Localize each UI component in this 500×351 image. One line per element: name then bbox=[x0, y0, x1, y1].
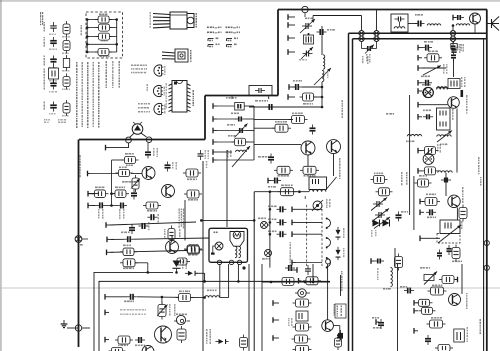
transistor V703 bbox=[449, 294, 461, 306]
air coil L702 text left bbox=[377, 268, 379, 270]
FM dipole symbol bbox=[130, 122, 147, 138]
oscillator transformer L611 bbox=[440, 220, 460, 234]
transistor V605 bbox=[448, 195, 460, 207]
wire motor down 2 bbox=[228, 264, 230, 298]
electrolytic C123 bbox=[174, 315, 190, 324]
terminal am261 bbox=[371, 258, 384, 264]
wire diode out bbox=[196, 273, 206, 282]
connector X3 bbox=[261, 222, 271, 229]
mixer wires bbox=[217, 106, 254, 160]
resistor R610 bbox=[371, 176, 388, 184]
resistor partial bottom bbox=[109, 348, 126, 351]
wire am mid vertical bbox=[409, 95, 411, 176]
TO-220 package leads bbox=[153, 14, 170, 28]
resistor R407m label bbox=[228, 135, 230, 137]
wire RF row97 bbox=[314, 96, 323, 99]
resistor R613 bbox=[422, 198, 440, 206]
wire vertical x262 bbox=[261, 264, 263, 351]
capacitor C408 label bbox=[153, 148, 155, 150]
trimmer capacitor C304 bbox=[364, 45, 374, 54]
tick mark on border 1 bbox=[231, 97, 233, 100]
TO-92 V201 pin marks bbox=[164, 66, 166, 68]
wire RF strip 2 bbox=[408, 23, 417, 25]
parts list text column 4 bbox=[93, 62, 95, 64]
af section text 2 bbox=[339, 158, 341, 160]
hf text right edge bbox=[478, 157, 480, 159]
coil L603 label bbox=[406, 141, 408, 143]
wire node stub 3 bbox=[452, 26, 454, 31]
wire switch feeds bbox=[296, 209, 322, 262]
capacitor C713 bbox=[293, 323, 312, 331]
wire af vertical x270 bbox=[269, 192, 271, 268]
wire bus y282 bbox=[262, 281, 330, 283]
boxed capacitor B401 bbox=[235, 103, 245, 111]
capacitor C712 box bbox=[296, 311, 308, 321]
TO-92 package V202 bbox=[153, 85, 162, 96]
resistor R403 bbox=[92, 190, 109, 198]
capacitor C122 bbox=[127, 294, 137, 300]
IF transformer F501 bbox=[309, 177, 327, 192]
capacitor C416 bbox=[135, 337, 145, 343]
resistor R409c label bbox=[147, 210, 149, 212]
resistor R722 bbox=[335, 335, 342, 350]
coil L303 bbox=[427, 24, 441, 26]
capacitor C403 bbox=[96, 202, 106, 208]
band text MV bbox=[341, 271, 343, 272]
node on box edge 3 bbox=[237, 260, 241, 264]
terminal row RF low bbox=[288, 84, 296, 100]
diode V404 bbox=[173, 261, 181, 274]
terminal row B bbox=[106, 222, 114, 255]
mixer right wire bbox=[244, 105, 254, 107]
capacitor C303b bbox=[292, 84, 302, 90]
parts list text column 1 bbox=[76, 62, 78, 64]
RF input terminal row bbox=[288, 14, 295, 55]
boxed capacitor C624 bbox=[459, 205, 467, 222]
variable resistor R605 bbox=[437, 131, 452, 143]
terminal rows bottom left bbox=[105, 294, 109, 342]
wire R441 link bbox=[200, 249, 203, 251]
node X2 bbox=[75, 325, 81, 331]
legend value A3 bbox=[49, 67, 51, 69]
electrolytic C123 label bbox=[176, 314, 178, 316]
border step vertical bbox=[204, 96, 206, 140]
junction dots demod bbox=[321, 106, 324, 109]
capacitor C520 bbox=[285, 265, 295, 271]
wire am v5 bbox=[461, 264, 463, 294]
wire x1115 vertical bbox=[111, 160, 113, 206]
resistor R408b bbox=[116, 170, 133, 177]
capacitor C601 bbox=[422, 45, 432, 51]
transistor V602 label bbox=[466, 95, 468, 98]
scan page corner bbox=[0, 0, 2, 2]
capacitor C530 bbox=[338, 330, 343, 340]
crossed node B1 bbox=[374, 31, 379, 36]
wire row A2 bbox=[92, 204, 117, 207]
shielded filter box F302 bbox=[391, 14, 408, 32]
border AM block top rail bbox=[353, 38, 488, 40]
resistor R709 bbox=[240, 335, 248, 351]
capacitor C410b on bus bbox=[124, 236, 134, 242]
transistor V301 bbox=[470, 13, 481, 25]
trimmer C406m bbox=[235, 124, 248, 138]
terminal row am4 bbox=[418, 148, 422, 154]
node right dipole bbox=[146, 137, 152, 143]
node left dipole bbox=[126, 137, 132, 143]
resistor R404 bbox=[112, 190, 129, 198]
terminal stubs mid bbox=[292, 207, 296, 266]
wire am v left low bbox=[394, 248, 396, 268]
legend symbol A2 bbox=[50, 37, 57, 47]
service box SR3 marks bbox=[101, 40, 102, 42]
crossed node C2 bbox=[450, 36, 455, 41]
capacitor C625 bbox=[447, 245, 452, 255]
capacitor C510 label bbox=[268, 186, 270, 188]
resistor R410 bbox=[184, 190, 202, 198]
capacitor C513 bbox=[277, 231, 287, 237]
legend caption text column bbox=[40, 12, 41, 15]
capacitor C715 bbox=[337, 332, 343, 342]
filter box F601 label bbox=[452, 109, 454, 111]
variable capacitor C301 bbox=[300, 19, 315, 33]
legend symbol B1 bbox=[63, 21, 70, 37]
oscillator coil L301 bbox=[323, 55, 325, 69]
mixer wire r4 bbox=[246, 141, 255, 143]
af text marks bbox=[288, 318, 290, 319]
wire am v emitter bbox=[456, 208, 458, 221]
border IF block left edge bbox=[78, 140, 80, 348]
ground symbol G1 bbox=[61, 320, 78, 328]
TO-92 package V203 bbox=[154, 103, 163, 114]
node right rail 2 bbox=[484, 265, 489, 270]
terminal row am5 bbox=[418, 168, 422, 174]
wire RF top link bbox=[313, 16, 362, 23]
terminal row am3 bbox=[418, 114, 422, 120]
legend label A5 bbox=[44, 80, 46, 82]
trimmer capacitor C304 label bbox=[366, 54, 368, 56]
resistor R502 bbox=[289, 116, 308, 124]
electrolytic C603 bbox=[451, 44, 457, 53]
wire diode link bbox=[173, 271, 187, 274]
type label box V923 bbox=[335, 304, 346, 318]
detector coil L501 bbox=[312, 200, 323, 211]
resistor R721 bbox=[435, 345, 453, 351]
wire V401 base bbox=[137, 159, 143, 161]
wire V502 down bbox=[333, 154, 335, 176]
terminal row A bbox=[88, 191, 95, 208]
filter box F601 bbox=[437, 108, 451, 130]
varicap label bbox=[371, 230, 373, 231]
wire node stub 2 bbox=[376, 10, 378, 31]
crossed node C1 bbox=[450, 31, 455, 36]
project text block bbox=[179, 209, 180, 211]
DIP-16 pin numbers bbox=[166, 83, 168, 86]
resistor R703 label bbox=[179, 291, 182, 293]
capacitor C303b label bbox=[293, 80, 295, 82]
capacitor C411 bbox=[139, 223, 149, 229]
service box plain row bbox=[86, 43, 118, 46]
diode V404 label bbox=[182, 258, 184, 260]
TO-92 V202 pin marks bbox=[164, 87, 166, 90]
legend symbol B2 bbox=[63, 38, 70, 54]
resistor R405 value bbox=[126, 165, 128, 167]
transistor V703 label bbox=[466, 293, 468, 294]
diode V504 bbox=[336, 247, 341, 260]
wire node stub 1 bbox=[361, 16, 363, 31]
TO-220 package label bbox=[196, 13, 198, 15]
pot R710 label bbox=[420, 267, 422, 269]
resistor R404 label bbox=[115, 187, 118, 189]
capacitor C510 bbox=[268, 178, 281, 184]
service box SR5 label bbox=[100, 56, 102, 58]
detector coil L501 label bbox=[326, 199, 328, 201]
ladder bottom capacitor bbox=[293, 346, 312, 351]
crossed node A1 bbox=[359, 31, 364, 36]
boxed capacitor C613 bbox=[422, 147, 439, 155]
scan page top edge band bbox=[0, 0, 500, 2]
capacitor C406 bbox=[165, 162, 171, 172]
connector X4 label bbox=[262, 258, 265, 260]
am r612 caption bbox=[386, 113, 388, 115]
switch contact K2 bbox=[326, 237, 331, 249]
junction dots y282 bbox=[270, 281, 315, 284]
varicap diode V611 bbox=[374, 217, 390, 229]
capacitor C404 bbox=[117, 203, 127, 209]
legend value B3 bbox=[62, 70, 65, 72]
junction dots y192 bbox=[269, 190, 301, 193]
terminal stubs afb bbox=[273, 300, 279, 341]
capacitor C601 label bbox=[424, 41, 427, 43]
am text right FM bbox=[480, 177, 482, 178]
TO-92 V203 pin marks bbox=[164, 105, 166, 107]
wire row297c bbox=[191, 296, 206, 299]
legend symbol A6 bbox=[50, 102, 57, 112]
wire V301 emitter bbox=[474, 24, 476, 33]
wire row A link bbox=[92, 192, 113, 195]
coil L606 bbox=[437, 88, 448, 90]
capacitor C408 in bbox=[145, 143, 151, 159]
wire IF bus 3 bbox=[111, 251, 188, 253]
service box right bus bbox=[116, 20, 118, 53]
am if text block bbox=[401, 172, 403, 174]
connector X1 bbox=[75, 236, 88, 243]
resistor R720 label bbox=[431, 317, 433, 319]
transistor V602 bbox=[448, 97, 460, 109]
transistor V702b partial bbox=[142, 346, 154, 351]
wire row297b bbox=[137, 296, 179, 299]
terminal am238 bbox=[420, 236, 440, 242]
dial motor winding bbox=[235, 246, 241, 257]
wire af bus bbox=[254, 191, 309, 193]
transistor V704 bbox=[322, 320, 334, 332]
border step at mixer bbox=[205, 95, 278, 97]
switch rod dashed bbox=[306, 205, 308, 268]
resistor R712 label bbox=[432, 285, 434, 287]
capacitor C122 label bbox=[124, 301, 126, 303]
corner wire 2 bbox=[99, 281, 330, 351]
capacitor C504 label bbox=[258, 156, 261, 158]
capacitor C512 bbox=[277, 219, 287, 225]
legend label A4 bbox=[44, 69, 46, 71]
capacitor C713b label bbox=[400, 286, 402, 288]
terminal rows AM in bbox=[418, 45, 422, 94]
wire am v0 bbox=[453, 59, 455, 77]
resistor R503 label bbox=[275, 121, 277, 123]
service box SR1 label bbox=[99, 14, 102, 16]
resistor R708 bbox=[177, 326, 186, 343]
boxed capacitor C715b bbox=[419, 307, 436, 314]
air coil L702 bbox=[391, 268, 393, 287]
wire IF bus 1 bbox=[110, 222, 196, 225]
boxed capacitor C714b bbox=[416, 299, 433, 306]
terminal to dipole bbox=[106, 143, 129, 150]
transistor V605 label bbox=[462, 187, 464, 189]
legend value A6 bbox=[49, 113, 50, 115]
dial motor box bbox=[209, 228, 248, 262]
terminal af right bbox=[455, 277, 458, 283]
legend value B2 bbox=[62, 53, 64, 55]
capacitor C713b bbox=[404, 288, 414, 294]
boxed cap L605 bbox=[448, 79, 460, 89]
TO-92 V202 label bbox=[147, 84, 149, 86]
junction blob bbox=[242, 266, 245, 269]
coil L304 bbox=[456, 24, 470, 26]
capacitor C410 label bbox=[158, 214, 160, 216]
connector X3 label bbox=[258, 218, 260, 220]
small cap partial bbox=[174, 258, 190, 265]
diode V503 bbox=[336, 227, 341, 240]
resistor C121 label bbox=[123, 268, 126, 270]
wire RF vertical 2 bbox=[321, 82, 323, 97]
wire v704 c bbox=[326, 259, 331, 319]
wire node to C603 bbox=[453, 42, 455, 44]
legend label A3 bbox=[44, 56, 46, 57]
legend footnote marks bbox=[44, 119, 45, 121]
capacitor C604 bbox=[451, 52, 456, 62]
small element E1 bbox=[461, 90, 464, 97]
border IF block top edge bbox=[79, 139, 205, 141]
capacitor C403 label bbox=[98, 209, 100, 211]
wire motor down 4 bbox=[248, 264, 250, 351]
TO-220 pin number marks bbox=[150, 12, 152, 14]
resistor R410 label bbox=[188, 199, 190, 201]
resistor R611 label bbox=[419, 175, 422, 177]
variable resistor R605 label bbox=[440, 144, 442, 146]
wire demod y144 bbox=[254, 144, 301, 146]
oscillator transformer L611 label bbox=[461, 221, 463, 224]
capacitor C407 label bbox=[205, 150, 207, 152]
wire L303 link bbox=[427, 24, 457, 26]
capacitor C404 label bbox=[119, 209, 121, 211]
resistor R601 bbox=[424, 54, 442, 62]
capacitor C405m label bbox=[231, 113, 233, 115]
resistor R610 label bbox=[374, 173, 375, 175]
switch contact K1 bbox=[326, 218, 331, 230]
V704 text label bbox=[334, 304, 336, 306]
mixer wire r3 bbox=[246, 130, 254, 132]
resistor R510 bbox=[278, 188, 297, 196]
resistor R304 label bbox=[303, 103, 306, 105]
legend value A1 bbox=[49, 34, 51, 36]
legend label A1 bbox=[44, 22, 46, 23]
capacitor C410b label bbox=[121, 232, 123, 234]
TO-126 package label bbox=[190, 50, 192, 51]
resistor R441b label bbox=[189, 244, 192, 246]
legend footnote marks 2 bbox=[58, 119, 59, 121]
transistor V701 bbox=[155, 326, 172, 343]
variable inductor L408 label bbox=[227, 150, 229, 152]
scan fold line bbox=[0, 287, 500, 289]
TO-126 package outline bbox=[175, 49, 188, 62]
resistor R615 bbox=[395, 254, 403, 271]
resistor R504 bbox=[274, 166, 293, 174]
wire demod y128 bbox=[254, 127, 275, 129]
resistor R614 label bbox=[452, 261, 454, 263]
shield can 1 label bbox=[422, 84, 425, 86]
resistor R504 label bbox=[278, 175, 280, 177]
resistor R614 bbox=[452, 245, 460, 262]
resistor R505 label bbox=[304, 175, 306, 177]
trimmer capacitor C303 bbox=[301, 47, 313, 59]
resistor R613 label bbox=[426, 194, 428, 196]
capacitor C612 label bbox=[423, 110, 425, 112]
capacitor C602 label bbox=[421, 76, 424, 78]
wire am right vertical bbox=[456, 109, 458, 173]
resistor R403 label bbox=[95, 187, 98, 189]
legend symbol A3 bbox=[50, 56, 57, 66]
electrolytic C603 label bbox=[459, 44, 461, 46]
variable pot R603 label bbox=[443, 64, 445, 67]
legend label A2 bbox=[44, 37, 46, 38]
wire demod h1 bbox=[249, 106, 322, 108]
trimmer C304 loop bbox=[362, 42, 377, 49]
varicap diode V610 bbox=[373, 220, 380, 227]
resistor R712 bbox=[428, 287, 447, 295]
capacitor C415 boxed bbox=[115, 336, 133, 344]
legend value B4 bbox=[62, 89, 64, 91]
antenna symbol bbox=[487, 17, 499, 31]
capacitor C411 label bbox=[148, 222, 150, 225]
capacitor C623 label bbox=[427, 217, 429, 219]
pot R411 labels bbox=[164, 229, 181, 239]
component text column V701 bbox=[206, 329, 208, 331]
wire IF bus 2 bbox=[111, 238, 209, 239]
wire IF row174 bbox=[91, 173, 143, 175]
dial lamp H1 bbox=[211, 242, 223, 255]
wire motor down 3 bbox=[237, 264, 240, 283]
capacitor C502 label bbox=[255, 100, 258, 102]
service box resistor SR2 bbox=[86, 24, 117, 31]
wire vertical x342 bbox=[340, 275, 342, 296]
capacitor C513 label bbox=[268, 231, 271, 233]
shield can symbol S1 bbox=[422, 88, 434, 98]
junction dots x270 rows bbox=[269, 208, 272, 236]
wire row297 bbox=[109, 296, 127, 298]
service box left bus bbox=[86, 20, 88, 53]
resistor R711 bbox=[439, 276, 457, 284]
service box resistor SR1 bbox=[86, 16, 118, 23]
variable capacitor C620 bbox=[371, 198, 387, 211]
coil L603 bbox=[407, 135, 421, 137]
capacitor C502 bbox=[266, 104, 276, 110]
scan page left edge band bbox=[0, 0, 2, 351]
variable capacitor C621 bbox=[372, 209, 389, 222]
capacitor C302 label bbox=[327, 29, 329, 31]
resistor R418 on bus bbox=[120, 248, 137, 256]
legend symbol B5 bbox=[63, 100, 70, 116]
TO-92 V201 pin labels bbox=[131, 65, 133, 67]
capacitor C302 bbox=[317, 29, 327, 35]
